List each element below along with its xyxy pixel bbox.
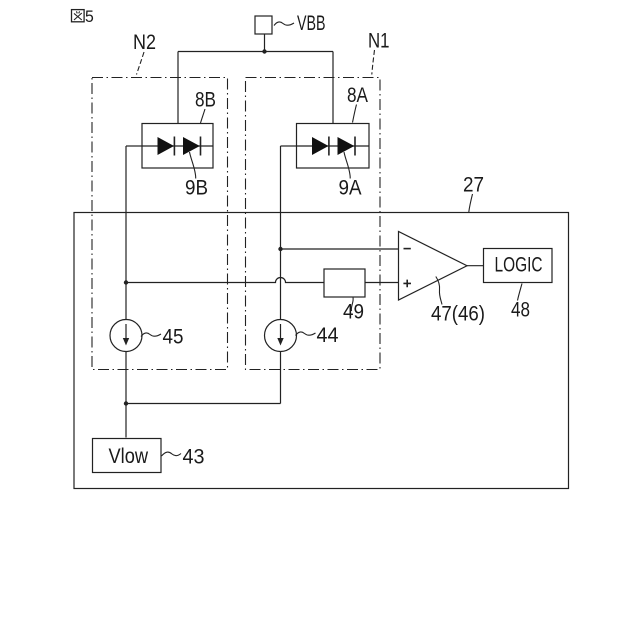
wire right vertical (8A to current source 44) xyxy=(280,146,282,320)
diodes 9B (two series diodes inside 8B) xyxy=(142,137,213,156)
label 9B with leader xyxy=(185,152,208,200)
resistor block 49 xyxy=(324,269,365,297)
label 45 with tilde leader xyxy=(141,326,184,349)
svg-text:LOGIC: LOGIC xyxy=(495,254,543,277)
label 9A with leader xyxy=(339,152,362,200)
wire plus line with hop over vertical xyxy=(126,278,324,283)
current source 44 (circle with down arrow) xyxy=(265,320,297,352)
label 8B with leader xyxy=(195,89,216,124)
junction dot node minus-line xyxy=(278,247,282,251)
label N2 with leader xyxy=(133,31,156,75)
wire left vertical (8B to current source 45) xyxy=(125,146,127,320)
wire drop to 8A xyxy=(332,52,334,124)
junction dot bottom node xyxy=(124,401,128,405)
wire 8A output stub left xyxy=(281,145,297,147)
svg-text:5: 5 xyxy=(85,7,94,26)
junction dot on VBB bus xyxy=(262,49,266,53)
svg-text:49: 49 xyxy=(343,301,364,324)
wire 49 to comparator plus xyxy=(365,282,399,284)
wire minus input line xyxy=(281,248,399,250)
svg-text:9A: 9A xyxy=(339,177,362,200)
junction dot node plus-line left xyxy=(124,280,128,284)
box 27 (outer solid block) xyxy=(74,213,569,489)
wire below 44 xyxy=(280,352,282,404)
label 47(46) with leader xyxy=(431,277,485,326)
svg-text:9B: 9B xyxy=(185,177,208,200)
wire 8B output stub left xyxy=(126,145,142,147)
label 27 with leader xyxy=(463,174,484,213)
diodes 9A (two series diodes inside 8A) xyxy=(297,137,370,156)
svg-text:Vlow: Vlow xyxy=(109,445,149,468)
wire bottom horizontal xyxy=(126,403,281,405)
svg-text:N2: N2 xyxy=(133,31,156,54)
svg-text:44: 44 xyxy=(317,324,339,347)
dash-dot box N2 xyxy=(92,78,228,370)
diode block 8B xyxy=(142,124,213,169)
label 8A with leader xyxy=(347,84,368,123)
svg-text:47(46): 47(46) xyxy=(431,303,485,326)
label VBB with tilde leader xyxy=(274,12,326,35)
wire comparator output xyxy=(467,265,484,267)
dash-dot box N1 xyxy=(246,78,381,370)
svg-text:8A: 8A xyxy=(347,84,368,107)
svg-text:VBB: VBB xyxy=(297,12,326,35)
terminal VBB (square pad) xyxy=(255,16,272,34)
op-amp comparator 47(46) xyxy=(399,232,468,301)
wire drop to 8B xyxy=(177,52,179,124)
label 図5 xyxy=(72,7,94,26)
label N1 with leader xyxy=(368,30,390,75)
svg-text:43: 43 xyxy=(183,446,205,469)
wire VBB horizontal bus xyxy=(178,51,333,53)
minus input symbol xyxy=(404,248,411,250)
label 44 with tilde leader xyxy=(296,324,339,347)
current source 45 (circle with down arrow) xyxy=(110,320,142,352)
svg-text:N1: N1 xyxy=(368,30,390,53)
svg-text:48: 48 xyxy=(511,299,530,322)
svg-text:27: 27 xyxy=(463,174,484,197)
wire below 45 down to Vlow xyxy=(125,352,127,438)
label 49 with leader xyxy=(343,298,364,324)
plus input symbol xyxy=(403,280,411,288)
block LOGIC xyxy=(484,249,553,283)
svg-text:8B: 8B xyxy=(195,89,216,112)
label 48 with leader xyxy=(511,284,530,322)
wire VBB vertical stub xyxy=(264,34,266,52)
diode block 8A xyxy=(297,124,370,169)
svg-text:45: 45 xyxy=(163,326,184,349)
label 43 with tilde leader xyxy=(162,446,205,469)
block Vlow 43 xyxy=(93,439,162,473)
